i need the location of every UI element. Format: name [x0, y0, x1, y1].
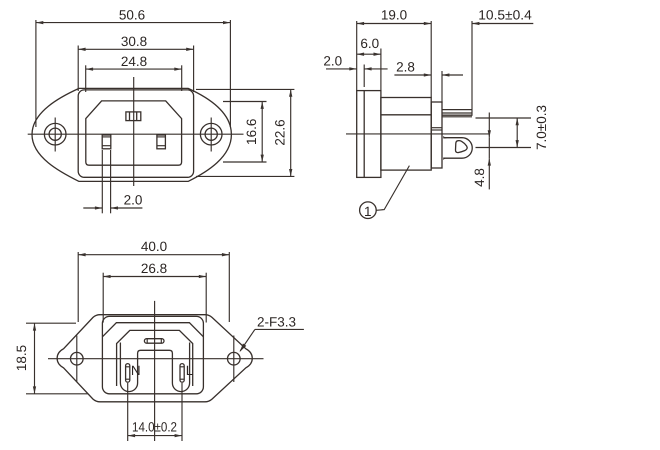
balloon callout 1: [360, 166, 410, 220]
svg-text:7.0±0.3: 7.0±0.3: [534, 105, 549, 150]
svg-text:2.0: 2.0: [323, 54, 342, 69]
dimension 18.5 (rotated): [14, 323, 88, 394]
dimension 19.0: [357, 8, 432, 98]
callout 2-F3.3 with leader: [240, 315, 304, 352]
left mounting hole: [44, 123, 66, 145]
dimension 24.8: [86, 54, 182, 92]
dimension 7.0±0.3 (rotated): [476, 105, 550, 150]
dimension 2.8: [394, 59, 463, 103]
dimension 6.0: [357, 36, 381, 90]
dimension 2.0 (flange thickness, side): [323, 54, 387, 88]
dimension 16.6 (rotated): [223, 102, 267, 163]
C14 opening: [86, 101, 182, 165]
top terminal pin: [442, 109, 472, 111]
svg-text:16.6: 16.6: [244, 119, 259, 145]
rear chamfered band: [102, 323, 203, 337]
svg-text:N: N: [131, 363, 141, 378]
dimension 30.8: [78, 34, 193, 92]
svg-text:2.0: 2.0: [124, 193, 143, 208]
triangular hole in tab: [456, 141, 468, 153]
body rounded rect: [78, 90, 193, 177]
tab barb bottom: [443, 158, 446, 160]
flange face line: [363, 91, 365, 178]
main body: [381, 98, 431, 171]
svg-text:14.0±0.2: 14.0±0.2: [132, 420, 177, 435]
rear right hole: [228, 352, 241, 365]
right pin: [157, 135, 166, 149]
rear horizontal centreline: [48, 358, 264, 360]
rear flange outline: [57, 315, 252, 402]
right mounting hole: [200, 123, 222, 145]
earth pin (top centre): [126, 112, 141, 121]
N pin slot: [126, 364, 130, 383]
left pin: [102, 135, 111, 149]
rear body rounded rect: [102, 316, 203, 393]
svg-text:50.6: 50.6: [119, 8, 145, 23]
svg-text:1: 1: [364, 204, 372, 219]
rear step: [431, 102, 442, 168]
dimension 2.0 (pin width): [83, 150, 142, 213]
svg-text:22.6: 22.6: [272, 119, 287, 145]
dimension 4.8 (rotated): [472, 113, 489, 190]
flange plate: [357, 91, 381, 178]
svg-text:40.0: 40.0: [141, 239, 167, 254]
svg-text:18.5: 18.5: [14, 345, 29, 371]
step seam lines: [431, 127, 442, 129]
dimension 10.5±0.4: [472, 8, 533, 116]
dimension 22.6 (rotated): [196, 89, 294, 176]
rear left hole: [71, 352, 84, 365]
svg-text:26.8: 26.8: [141, 261, 167, 276]
recess pocket with two wells and centre bridge: [120, 343, 189, 392]
tab barb top: [443, 136, 446, 138]
body parting line: [381, 114, 431, 116]
side terminal tab: [444, 138, 473, 159]
horizontal centreline: [28, 133, 244, 135]
dimension 14.0±0.2: [128, 383, 182, 441]
rear vertical centreline: [154, 301, 156, 441]
svg-text:4.8: 4.8: [472, 168, 487, 187]
svg-text:19.0: 19.0: [381, 8, 407, 23]
svg-text:2-F3.3: 2-F3.3: [257, 315, 296, 330]
rear C14 protrusion: [117, 330, 193, 386]
dimension 26.8: [103, 261, 206, 323]
svg-text:10.5±0.4: 10.5±0.4: [478, 8, 532, 23]
svg-text:24.8: 24.8: [121, 54, 147, 69]
svg-text:L: L: [186, 363, 194, 378]
L pin slot: [180, 364, 184, 383]
dimension 40.0: [78, 239, 229, 322]
svg-text:30.8: 30.8: [121, 34, 147, 49]
svg-text:6.0: 6.0: [360, 36, 379, 51]
vertical centreline: [133, 77, 135, 186]
svg-text:2.8: 2.8: [396, 59, 415, 74]
earth pin slot (rear): [144, 339, 164, 344]
dimension 50.6: [36, 8, 231, 128]
flange outline: [32, 88, 231, 181]
side centreline: [346, 133, 489, 135]
